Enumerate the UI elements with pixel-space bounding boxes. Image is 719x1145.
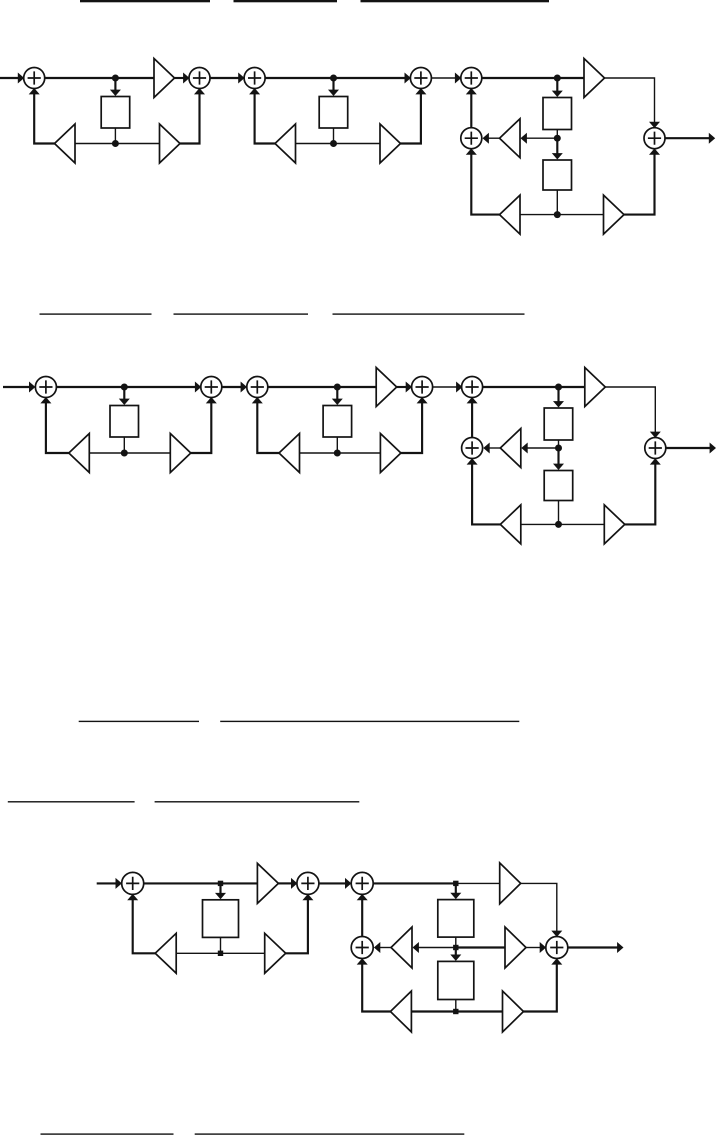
wire row3-s1 bottom node to gain b1	[221, 952, 265, 954]
delay1 z-1 row2-s3	[544, 408, 573, 440]
wire row1-s1 delay to bottom node	[114, 128, 116, 144]
wire row1-s3 gain a2 to feedback adder (corner up)	[471, 154, 499, 215]
gain b2 row3-s2 (bottom right triangle)	[503, 991, 524, 1032]
wire row3 s1 to s2 with arrow	[319, 882, 346, 884]
wire row2-s3 gain b2 to output adder (corner up)	[625, 464, 656, 525]
adder row2-s2 A-out	[412, 377, 433, 398]
wire row3-s1 gain a1 to adder A-in (feedback)	[133, 898, 156, 953]
node row2-s2 bottom junction	[334, 450, 341, 457]
wire row3-s1 node to delay (arrow down)	[219, 885, 221, 894]
wire row2-s1 A-in to node	[56, 386, 124, 388]
gain b1 row2-s2 (right triangle)	[380, 434, 401, 473]
wire row2-s3 feedback adder to main adder (arrow up)	[471, 402, 473, 438]
wire row3-s2 adder to node	[373, 882, 456, 884]
wire row3-s1 A-in to node	[144, 882, 221, 884]
equation 2 underline a	[40, 313, 152, 314]
wire row2-s2 A-in to node	[268, 386, 338, 388]
adder row1-s1 A-in	[24, 68, 45, 89]
wire row3-s2 node to gain b0	[456, 882, 500, 884]
wire row1-s2 bottom node to gain a1	[296, 143, 334, 145]
wire row3-s1 bottom node to gain a1	[176, 952, 220, 954]
wire row1-s3 gain a1 to feedback adder (arrow left)	[487, 137, 500, 139]
gain b1 row2-s1 (right triangle)	[170, 434, 191, 473]
adder row1-s1 A-out	[189, 68, 210, 89]
node row2-s2 main junction	[334, 384, 341, 391]
gain -a1 row2-s2 (left triangle)	[279, 434, 300, 473]
gain b1 row1-s1 (right triangle)	[160, 124, 181, 163]
wire row3-s2 gain b0 to output adder (corner down)	[521, 883, 557, 931]
gain -a1 row3-s1 (left triangle)	[155, 933, 176, 973]
wire row2-s3 adder to node	[483, 386, 559, 388]
wire row2-s1 node to A-out	[124, 386, 197, 388]
wire row1-s1 gain b1 to adder A-out	[180, 93, 200, 144]
wire row3-s2 bottom node to gain a2	[411, 1010, 455, 1012]
wire row2-s3 bottom node to gain b2	[559, 523, 605, 525]
wire row3-s2 mid node to gain a1 (arrow left)	[416, 947, 456, 949]
delay z-1 row1-s1	[101, 97, 130, 129]
delay z-1 row3-s1	[203, 900, 239, 938]
adder row2-s2 A-in	[247, 377, 268, 398]
gain b0 row1-s3 (top triangle)	[584, 59, 605, 98]
delay2 z-1 row2-s3	[544, 471, 573, 501]
wire row2-s3 mid node down to delay2	[557, 450, 559, 466]
wire row1-s2 A-in to node	[265, 77, 333, 79]
equation 2 underline b	[174, 313, 309, 314]
node row2-s1 bottom junction	[121, 450, 128, 457]
wire row2-s2 gain b1 to adder A-out	[401, 402, 422, 454]
node row1-s1 main junction	[112, 75, 119, 82]
node row3-s2 main junction	[453, 881, 458, 886]
wire row3-s1 delay to bottom node	[220, 937, 222, 953]
wire row3-s1 node to gain b0	[221, 882, 258, 884]
wire row1-s1 A-in to node	[45, 77, 116, 79]
wire row1-s3 bottom node to gain b2	[557, 214, 603, 216]
node row1-s2 bottom junction	[330, 140, 337, 147]
adder row1-s2 A-in	[244, 68, 265, 89]
delay z-1 row1-s2	[319, 97, 348, 129]
wire row1-s3 gain b0 to output adder (corner down)	[605, 78, 655, 123]
wire row1-s3 delay1 to mid node	[556, 130, 558, 139]
gain b0 row2-s3 (top triangle)	[585, 368, 606, 407]
wire row2-s1 bottom node to gain a1	[89, 452, 124, 454]
wire row3-s2 bottom node to gain b2	[456, 1010, 503, 1012]
row3 input wire with arrow	[97, 882, 117, 884]
gain b1 row1-s2 (right triangle)	[380, 124, 401, 163]
gain b1 row3-s2 (mid right triangle)	[505, 927, 526, 968]
wire row2-s2 node to gain b0	[337, 386, 376, 388]
wire row3-s2 mid node to gain b1	[456, 946, 505, 948]
delay1 z-1 row3-s2	[438, 900, 474, 938]
gain -a2 row3-s2 (bottom left triangle)	[390, 991, 411, 1032]
wire row3-s2 node down to delay1	[455, 885, 457, 894]
wire row2-s2 bottom node to gain a1	[300, 452, 338, 454]
wire row2-s2 gain a1 to adder A-in (feedback)	[257, 402, 279, 454]
adder row3-s1 A-out	[297, 872, 319, 894]
delay z-1 row2-s1	[110, 406, 139, 438]
gain -a2 row1-s3 (bottom left triangle)	[500, 195, 521, 234]
gain -a1 row1-s2 (left triangle)	[275, 124, 296, 163]
wire row3-s2 delay1 to mid node	[455, 937, 457, 947]
wire row1-s2 gain b1 to adder A-out	[401, 93, 421, 144]
gain b2 row1-s3 (bottom right triangle)	[604, 195, 625, 234]
wire row1-s1 bottom node to gain a1	[75, 143, 115, 145]
gain -a1 row3-s2 (mid triangle)	[391, 927, 412, 968]
wire row3-s2 gain a1 to feedback adder (arrow left)	[378, 947, 391, 949]
wire row2-s3 output with arrow	[666, 447, 711, 449]
node row1-s2 main junction	[330, 75, 337, 82]
node row3-s2 bottom junction	[453, 1009, 458, 1014]
adder row2-s1 A-out	[201, 377, 222, 398]
adder row3-s2 feedback adder	[351, 937, 373, 959]
wire row2-s3 delay2 to bottom node	[558, 501, 560, 525]
wire row3-s2 feedback adder to main adder (arrow up)	[361, 898, 363, 936]
delay1 z-1 row1-s3	[543, 98, 572, 130]
equation 1 underline b	[234, 0, 338, 2]
equation 2 underline c	[333, 313, 525, 314]
equation 4 underline b	[155, 801, 360, 802]
node row3-s1 main junction	[218, 881, 223, 886]
wire row2-s1 gain a1 to adder A-in (feedback)	[46, 402, 69, 454]
wire row2-s2 delay to bottom node	[336, 437, 338, 453]
wire row1 s1 to s2 with arrow	[210, 77, 240, 79]
wire row2-s3 mid node to gain a1 (arrow left)	[525, 447, 559, 449]
wire row3-s2 mid node down to delay2	[455, 950, 457, 957]
wire row1-s3 node down to delay1	[556, 80, 558, 93]
equation 4 underline a	[8, 801, 135, 802]
wire row2-s1 delay to bottom node	[123, 437, 125, 453]
wire row2-s3 delay1 to mid node	[558, 440, 560, 448]
wire row1-s2 node to delay (arrow down)	[332, 80, 334, 92]
wire row1-s3 feedback adder to main adder (arrow up)	[470, 93, 472, 128]
equation 1 underline c	[361, 0, 550, 2]
wire row2 s2 to s3 with arrow	[433, 386, 458, 388]
wire row3-s1 gain b1 to adder A-out	[286, 898, 308, 953]
node row2-s3 mid junction	[555, 445, 562, 452]
wire row2-s3 gain b0 to output adder (corner down)	[605, 387, 655, 433]
wire row2-s3 gain a1 to feedback adder (arrow left)	[488, 447, 501, 449]
gain b0 row3-s1 (triangle)	[257, 863, 278, 903]
adder row2-s1 A-in	[35, 377, 56, 398]
node row1-s1 bottom junction	[112, 140, 119, 147]
equation 5 underline a	[41, 1133, 174, 1134]
wire row1-s1 node to delay (arrow down)	[114, 80, 116, 92]
node row1-s3 bottom junction	[554, 211, 561, 218]
wire row1-s1 node to gain b0	[115, 77, 154, 79]
wire row2-s2 gain b0 to A-out	[397, 386, 408, 388]
wire row1-s3 adder to node	[482, 77, 558, 79]
wire row3-s2 delay2 to bottom node	[455, 1000, 457, 1012]
wire row1-s3 output with arrow	[665, 137, 710, 139]
wire row1-s1 gain b0 to A-out	[175, 77, 186, 79]
wire row1-s3 bottom node to gain a2	[520, 214, 557, 216]
wire row3-s2 output with arrow	[568, 946, 619, 948]
adder row1-s3 feedback adder	[461, 128, 482, 149]
equation 3 underline a	[79, 721, 199, 722]
gain b0 row2-s2 (triangle)	[376, 368, 397, 407]
wire row1-s3 mid node down to delay2	[556, 140, 558, 155]
delay2 z-1 row3-s2	[438, 961, 474, 999]
wire row1-s3 gain b2 to output adder (corner up)	[624, 154, 655, 215]
adder row3-s2 output adder	[546, 937, 568, 959]
adder row3-s2 main adder	[351, 872, 373, 894]
gain b0 row3-s2 (top triangle)	[500, 863, 521, 904]
wire row3-s2 gain b2 to output adder (corner up)	[524, 964, 557, 1012]
wire row1-s2 gain a1 to adder A-in (feedback)	[255, 93, 275, 144]
wire row2-s3 gain a2 to feedback adder (corner up)	[472, 464, 500, 525]
wire row3-s2 gain a2 to feedback adder (corner up)	[362, 964, 390, 1012]
wire row2-s1 bottom node to gain b1	[124, 452, 170, 454]
delay2 z-1 row1-s3	[543, 160, 572, 190]
wire row1 s2 to s3 with arrow	[431, 77, 456, 79]
wire row3-s2 gain b1 to output adder (arrow right)	[526, 947, 541, 949]
wire row1-s2 delay to bottom node	[333, 128, 335, 144]
gain -a2 row2-s3 (bottom left triangle)	[500, 505, 521, 544]
node row2-s1 main junction	[121, 384, 128, 391]
node row3-s1 bottom junction	[218, 951, 223, 956]
wire row1-s2 bottom node to gain b1	[334, 143, 381, 145]
wire row1-s2 node to A-out	[334, 77, 407, 79]
node row2-s3 main junction	[555, 384, 562, 391]
adder row2-s3 feedback adder	[462, 438, 483, 459]
node row2-s3 bottom junction	[555, 521, 562, 528]
equation 3 underline b	[220, 721, 519, 722]
node row1-s3 main junction	[554, 75, 561, 82]
gain b1 row3-s1 (right triangle)	[265, 933, 286, 973]
gain -a1 row1-s3 (mid triangle)	[500, 119, 521, 158]
wire row1-s1 gain a1 to adder A-in (feedback)	[34, 93, 54, 144]
gain b2 row2-s3 (bottom right triangle)	[604, 505, 625, 544]
adder row1-s3 main adder	[461, 68, 482, 89]
wire row2-s3 node down to delay1	[557, 389, 559, 403]
wire row1-s3 delay2 to bottom node	[556, 190, 558, 215]
adder row2-s3 main adder	[462, 377, 483, 398]
node row3-s2 mid junction	[453, 945, 458, 950]
delay z-1 row2-s2	[323, 406, 352, 438]
row1 input wire with arrow	[0, 77, 20, 79]
node row1-s3 mid junction	[554, 135, 561, 142]
wire row1-s3 node to gain b0	[557, 77, 584, 79]
adder row1-s3 output adder	[644, 128, 665, 149]
wire row1-s1 bottom node to gain b1	[115, 143, 159, 145]
row2 input wire with arrow	[3, 386, 31, 388]
wire row2-s2 bottom node to gain b1	[337, 452, 380, 454]
wire row2-s1 node to delay (arrow down)	[123, 389, 125, 401]
adder row1-s2 A-out	[410, 68, 431, 89]
gain -a1 row2-s3 (mid triangle)	[500, 429, 521, 468]
gain -a1 row2-s1 (left triangle)	[69, 434, 90, 473]
wire row1-s3 mid node to gain a1 (arrow left)	[524, 137, 557, 139]
gain -a1 row1-s1 (left triangle)	[55, 124, 76, 163]
wire row2 s1 to s2 with arrow	[222, 386, 242, 388]
equation 5 underline b	[195, 1133, 465, 1134]
wire row2-s3 node to gain b0	[559, 386, 585, 388]
wire row2-s1 gain b1 to adder A-out	[191, 402, 212, 454]
equation 1 underline a	[80, 0, 210, 2]
gain b0 row1-s1 (triangle)	[154, 59, 175, 98]
wire row3-s1 gain b0 to A-out	[278, 882, 293, 884]
wire row2-s3 bottom node to gain a2	[521, 523, 559, 525]
wire row2-s2 node to delay (arrow down)	[336, 389, 338, 401]
adder row2-s3 output adder	[645, 438, 666, 459]
adder row3-s1 A-in	[122, 872, 144, 894]
